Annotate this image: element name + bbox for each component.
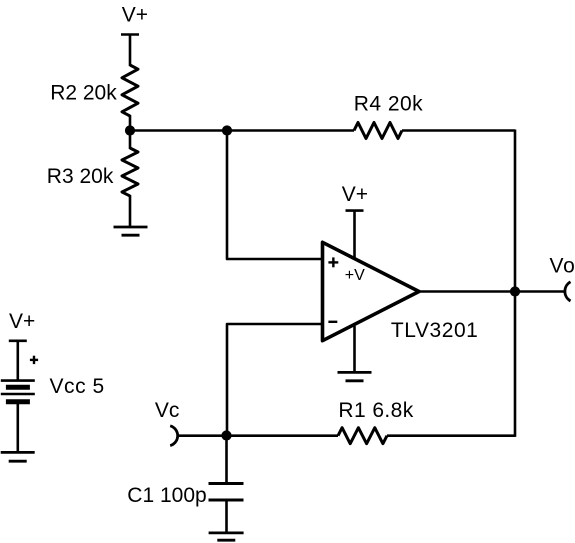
wire R4 to right rail (402, 129, 515, 132)
resistor R1 (338, 428, 387, 444)
port Vc (155, 399, 180, 446)
svg-text:V+: V+ (342, 183, 368, 206)
port Vo (550, 255, 575, 302)
wire R3 to ground (129, 195, 132, 227)
wire R2 to R3 (129, 115, 132, 149)
svg-text:Vo: Vo (550, 255, 575, 278)
svg-text:R3 20k: R3 20k (47, 165, 114, 188)
power flag V+ (top of R2) (121, 4, 148, 35)
wire (output) (419, 290, 565, 293)
svg-text:R4 20k: R4 20k (354, 92, 423, 115)
wire V+ to battery (16, 341, 19, 381)
power flag V+ (battery) (9, 310, 35, 341)
ground (below R3) (114, 227, 148, 235)
ground (op-amp) (338, 372, 372, 380)
wire (− input down to Vc node) (227, 324, 322, 436)
wire right rail output to R1 (514, 292, 517, 437)
resistor R2 (122, 65, 138, 116)
svg-text:V+: V+ (122, 4, 148, 27)
wire V+ to R2 (129, 35, 132, 67)
wire divider tap to R4 (130, 129, 354, 132)
power flag V+ (op-amp supply) (342, 183, 368, 211)
junction node (divider tap) (125, 125, 135, 135)
wire (+ input from feedback tap) (227, 131, 322, 260)
battery Vcc (1, 356, 38, 402)
svg-text:+V: +V (345, 267, 365, 284)
capacitor C1 (209, 484, 244, 501)
junction node (output) (510, 286, 520, 296)
wire Vc to R1 (177, 434, 338, 437)
wire V+ to op-amp supply pin (353, 211, 356, 258)
junction node (feedback tap) (222, 125, 232, 135)
svg-text:Vcc 5: Vcc 5 (50, 375, 105, 398)
wire op-amp to ground (353, 326, 356, 372)
resistor R3 (122, 148, 138, 196)
svg-text:Vc: Vc (155, 399, 180, 422)
wire R1 to right rail (387, 434, 515, 437)
resistor R4 (354, 123, 402, 139)
ground (battery) (1, 452, 35, 461)
wire Vc node to C1 (225, 436, 228, 484)
svg-text:TLV3201: TLV3201 (391, 319, 479, 342)
svg-text:V+: V+ (9, 310, 35, 333)
svg-text:C1 100p: C1 100p (127, 484, 206, 507)
ground (C1) (209, 533, 244, 540)
op-amp U1 TLV3201 (323, 242, 420, 340)
wire C1 to ground (225, 500, 228, 533)
wire battery to ground (16, 402, 19, 453)
wire right rail down to output (514, 130, 517, 292)
junction node (Vc node) (221, 430, 231, 440)
svg-text:R2 20k: R2 20k (50, 82, 117, 105)
svg-text:R1 6.8k: R1 6.8k (338, 399, 413, 422)
